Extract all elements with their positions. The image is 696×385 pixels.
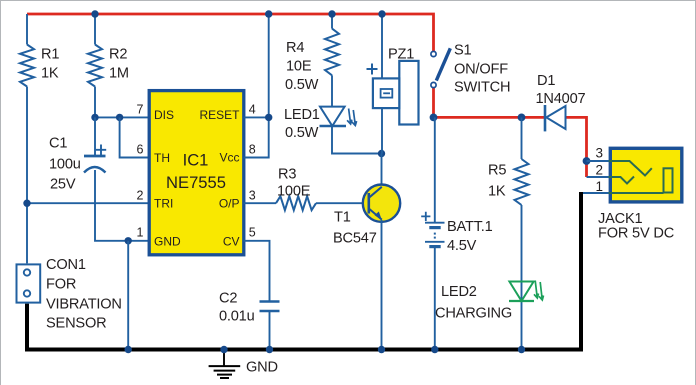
pin 8 number [249, 143, 256, 157]
pin 7 number [137, 103, 144, 117]
wire GND branch down to rail [127, 241, 129, 350]
wire PZ1 top lead [381, 14, 383, 79]
ground [209, 351, 278, 378]
wire jack pin 2 [587, 176, 609, 178]
wire R2 bottom lead [94, 87, 96, 118]
svg-text:RESET: RESET [199, 108, 240, 122]
node rail-PZ1 junction [378, 10, 385, 17]
pin 5 number [249, 226, 256, 240]
svg-text:1K: 1K [488, 184, 506, 200]
svg-text:CV: CV [223, 234, 240, 248]
wire C1 bottom to pin 1 GND [95, 170, 149, 241]
svg-text:O/P: O/P [219, 197, 240, 211]
svg-text:CON1: CON1 [46, 257, 86, 273]
svg-text:25V: 25V [50, 177, 76, 193]
wire T1 emitter to rail [381, 220, 383, 350]
switch S1 [431, 43, 510, 96]
capacitor C1 [49, 136, 106, 193]
wire node to pin 7 DIS [95, 116, 149, 118]
node rail-battery junction [431, 346, 438, 353]
wire TH branch to pin 6 [120, 117, 149, 157]
wire bottom ground rail (black) [27, 192, 581, 350]
svg-text:GND: GND [246, 360, 278, 376]
op-amp U1 : IC1 NE7555 timer box [149, 91, 244, 255]
node rail-power junction [265, 10, 272, 17]
wire battery minus to rail [434, 247, 436, 350]
svg-text:3: 3 [595, 146, 603, 161]
node C junction [378, 150, 385, 157]
svg-text:C1: C1 [49, 136, 67, 152]
node R5 junction [518, 114, 526, 122]
pin 4 number [249, 103, 256, 117]
wire TRI line to pin 2 [27, 202, 149, 204]
piezo buzzer PZ1 [367, 47, 419, 125]
svg-text:R2: R2 [109, 46, 127, 62]
node rail-LED2 junction [518, 346, 525, 353]
diode D1 1N4007 [536, 73, 586, 132]
svg-text:TH: TH [154, 151, 170, 165]
svg-text:D1: D1 [537, 73, 555, 89]
resistor R1 [20, 45, 59, 87]
node B junction [430, 114, 438, 122]
node rail-emitter junction [378, 346, 385, 353]
wire R1 top lead [26, 14, 28, 45]
wire switch S1 to node B (red) [432, 88, 435, 118]
node TRI junction [23, 200, 30, 207]
node rail-R4 junction [328, 10, 335, 17]
svg-text:SWITCH: SWITCH [454, 80, 510, 96]
svg-text:0.5W: 0.5W [285, 77, 319, 93]
transistor Q1 : T1 BC547 [333, 185, 400, 247]
svg-text:1M: 1M [109, 65, 129, 81]
wire pin 4 RESET to power node [244, 116, 269, 118]
wire diode D1 to jack pin 3/2 (red) [566, 117, 587, 177]
svg-text:Vcc: Vcc [219, 151, 239, 165]
node rail-R2 junction [91, 10, 98, 17]
node rail-ground junction [220, 346, 227, 353]
resistor R4 [285, 29, 339, 93]
wire C1 top lead [94, 117, 96, 156]
svg-text:6: 6 [137, 143, 144, 157]
svg-text:5: 5 [249, 226, 256, 240]
svg-text:R5: R5 [488, 163, 506, 179]
svg-text:100E: 100E [277, 184, 311, 200]
svg-text:R4: R4 [286, 40, 304, 56]
svg-text:VIBRATION: VIBRATION [46, 297, 122, 313]
svg-text:1K: 1K [41, 65, 59, 81]
svg-text:C2: C2 [219, 291, 237, 307]
svg-text:1: 1 [137, 226, 144, 240]
battery BATT.1 [421, 212, 492, 254]
wire node C to T1 collector [381, 154, 383, 187]
jack JACK1 for 5V DC [598, 148, 682, 241]
wire R5 to LED2 and rail [521, 205, 523, 350]
svg-text:S1: S1 [454, 43, 472, 59]
wire pin 5 CV to C2 [244, 241, 270, 302]
svg-text:R1: R1 [41, 46, 59, 62]
svg-text:1: 1 [595, 179, 603, 194]
resistor R2 [88, 45, 129, 87]
svg-text:10E: 10E [286, 59, 312, 75]
svg-text:4: 4 [249, 103, 256, 117]
svg-text:GND: GND [154, 234, 181, 248]
node R2-C1-DIS junction [91, 114, 98, 121]
svg-text:FOR 5V DC: FOR 5V DC [598, 226, 674, 242]
wire power node vertical to rail and Vcc [244, 14, 269, 158]
wire V+ top rail (red) [27, 14, 434, 52]
node RESET-Vcc junction [265, 114, 272, 121]
pin 2 number of jack [595, 163, 603, 178]
capacitor C2 [219, 291, 280, 325]
svg-text:LED2: LED2 [441, 284, 477, 300]
svg-text:2: 2 [595, 163, 603, 178]
svg-text:1N4007: 1N4007 [536, 91, 586, 107]
svg-text:BC547: BC547 [333, 231, 377, 247]
svg-text:TRI: TRI [154, 197, 173, 211]
wire R2 top lead [94, 14, 96, 45]
wire R5 top lead [521, 117, 523, 159]
wire PZ1 bottom to node C [381, 108, 383, 153]
wire R1 bottom to CON1 [26, 87, 28, 264]
pin 3 number of jack [595, 146, 603, 161]
svg-text:3: 3 [249, 189, 256, 203]
svg-text:DIS: DIS [154, 108, 174, 122]
node GND branch junction [125, 237, 132, 244]
wire LED1 to node C [332, 126, 382, 154]
wire R4 top lead [331, 14, 333, 29]
wire R3 to T1 base [316, 202, 369, 204]
node jack pin3 junction [583, 157, 591, 165]
svg-text:0.5W: 0.5W [285, 125, 319, 141]
svg-text:NE7555: NE7555 [166, 173, 226, 192]
wire pin 3 O/P to R3 [244, 202, 277, 204]
svg-text:BATT.1: BATT.1 [447, 219, 493, 235]
pin 6 number [137, 143, 144, 157]
pin 2 number [137, 189, 144, 203]
svg-text:PZ1: PZ1 [388, 47, 414, 63]
svg-text:8: 8 [249, 143, 256, 157]
wire node B to diode D1 (red) [432, 116, 544, 119]
svg-text:0.01u: 0.01u [219, 309, 255, 325]
resistor R3 [276, 167, 316, 211]
svg-text:LED1: LED1 [284, 107, 320, 123]
svg-text:7: 7 [137, 103, 144, 117]
wire C2 bottom to rail [269, 311, 271, 350]
svg-text:T1: T1 [334, 210, 351, 226]
wire node B to battery plus [434, 117, 436, 222]
pin 1 number of jack [595, 179, 603, 194]
LED LED1 [284, 107, 357, 141]
wire jack pin 1 [583, 192, 609, 194]
resistor R5 [488, 159, 529, 205]
svg-text:FOR: FOR [46, 277, 76, 293]
wire R4 to LED1 [331, 75, 333, 106]
svg-text:ON/OFF: ON/OFF [454, 61, 508, 77]
svg-text:2: 2 [137, 189, 144, 203]
node rail-C2 junction [266, 346, 273, 353]
svg-text:SENSOR: SENSOR [46, 316, 106, 332]
wire jack pin 3 [587, 160, 609, 162]
node rail-GND junction [125, 346, 132, 353]
pin 1 number [137, 226, 144, 240]
svg-text:100u: 100u [49, 157, 81, 173]
LED LED2 [435, 281, 544, 322]
node DIS-TH junction [116, 114, 123, 121]
svg-text:IC1: IC1 [183, 151, 209, 170]
svg-text:R3: R3 [278, 167, 296, 183]
connector CON1 [17, 257, 122, 332]
pin 3 number [249, 189, 256, 203]
svg-text:CHARGING: CHARGING [435, 306, 512, 322]
svg-text:4.5V: 4.5V [447, 238, 477, 254]
